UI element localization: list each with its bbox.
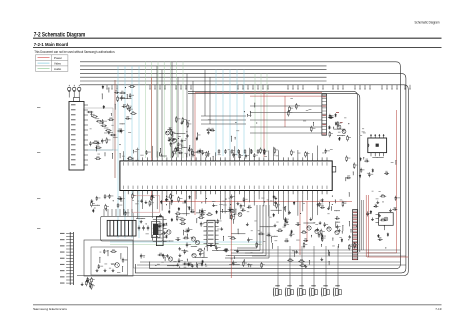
label RCtr7 [171,136,173,139]
pin label bottom 42 [321,186,324,189]
IC U301 bottom pin 28 [253,191,255,195]
wire [330,206,333,210]
label RF25 [151,201,154,204]
resistor RCtr7 [169,139,175,141]
audio wire (green) vertical 2 [266,74,268,152]
pin label bottom 21 [219,186,222,189]
label RP1 [291,107,294,110]
wire audio out 5 [252,255,406,257]
resistor RP7 [288,110,290,116]
diode DA22 [103,105,105,109]
label CCtr34 [211,127,213,130]
resistor RT1 [87,277,89,283]
resistor RG49 [176,215,178,221]
IC U301 bottom pin 43 [326,191,328,195]
pin label bottom 41 [316,186,319,189]
IC U602 label 3 [208,230,214,231]
IC U301 top pin 2 [127,157,129,161]
label CK8 [397,197,400,200]
wire to IC pin [122,151,124,157]
node junction [225,199,226,200]
node junction [206,198,207,199]
label RE19 [307,152,310,155]
label CJ11 [363,169,365,172]
ground [180,121,183,124]
connector CN801 cell 4 [353,220,358,222]
IC U301 top pin 33 [278,157,280,161]
wire [119,153,122,158]
bus line top 3 [80,69,327,71]
label RP4 [312,127,315,130]
ground [274,201,277,204]
label RE15 [174,153,177,156]
capacitor CG81 [188,263,193,265]
diode DG109 [163,223,165,227]
label CI6 [330,114,332,117]
diode DH59 [273,213,275,217]
power wire red vertical center [230,200,232,278]
node junction [356,226,357,227]
IC U301 bottom pin 37 [297,191,299,195]
wire [328,252,331,257]
pin label CN701-1 [60,233,65,234]
connector CN701 pin 13 [66,269,73,272]
diode DF50 [293,201,295,205]
power wire red bottom right [367,256,408,258]
label P9 [290,97,293,100]
wire [95,145,98,151]
label CH39 [336,215,338,218]
resistor RH46 [320,229,322,235]
label CH20 [297,221,300,224]
resistor RV5 [95,158,101,160]
power wire red vertical 3 [263,93,265,157]
wire to IC pin [311,153,313,157]
wire from IC pin [311,194,313,219]
IC U301 bottom pin 27 [248,191,250,195]
capacitor CL10 [117,198,122,200]
IC U301 bottom pin 18 [205,191,207,195]
resistor RCtr5 [196,151,202,153]
label F2 [215,204,217,207]
wire [270,237,273,243]
IC U301 top pin 31 [268,157,270,161]
label CE34 [235,153,237,156]
resistor RH55 [301,232,307,234]
wire to IC pin [234,146,236,157]
label E30 [206,154,209,157]
label F28 [219,203,223,206]
capacitor CL9 [124,211,126,216]
capacitor CH39 [335,217,340,219]
wire stub from bus [405,85,406,90]
resistor RG25 [231,214,233,220]
label RH50 [278,228,281,231]
wire stub from bus [117,85,118,90]
label RCtr30 [177,118,180,121]
transistor Q amp [307,226,311,230]
video wire (cyan) horizontal [88,149,118,151]
connector CN801 body [353,210,358,260]
audio wire (green) vertical 2 [254,74,256,152]
label CL16 [122,197,124,200]
label CG78 [242,207,244,210]
label V1 [97,153,100,156]
pin label bottom 7 [151,186,154,189]
wire from IC pin [244,194,246,207]
IC U301 top pin 41 [316,157,318,161]
connector CN801 cell 12 [353,247,358,249]
IC U401 bottom pin 3 [378,153,380,157]
resistor RO3 [119,92,125,94]
IC U602 label 1 [208,222,214,223]
wire loop C inner [77,85,408,276]
label H29 [313,221,315,224]
wire black right pair [361,200,363,250]
connector CN601 body [322,94,327,135]
wire stub from bus [303,85,304,90]
pin label top 33 [277,162,280,165]
wire to IC pin [181,152,183,158]
label F56 [274,204,276,207]
label E20 [297,152,300,155]
label RO13 [119,97,121,100]
resistor RJ1 [353,163,355,169]
resistor RG17 [206,214,212,216]
label CL1 [106,195,109,198]
IC U301 bottom pin 33 [278,191,280,195]
IC U301 top pin 8 [156,157,158,161]
capacitor CCtr16 [170,142,172,147]
IC U301 top pin 15 [190,157,192,161]
connector CN701 pin 7 [66,251,73,254]
pin label 9 [71,144,76,145]
label M8 [117,271,120,274]
pin label bottom 38 [301,186,304,189]
label G8 [187,206,190,209]
power wire red vertical r2 [306,202,308,243]
connector CN601 cell 4 [322,104,327,106]
label RE10 [292,151,295,154]
AV module pin 4 [115,209,117,216]
transistor Q misc [238,213,242,217]
label S7 [198,262,202,265]
IC U301 top pin 18 [205,157,207,161]
label RG20 [260,231,263,234]
node junction [143,256,144,257]
ground [212,204,215,207]
capacitor CG71 [140,254,142,259]
jack J3 [78,85,81,98]
connector CN801 cell 9 [353,237,358,239]
resistor RH50 [277,230,283,232]
label CE32 [256,154,258,157]
pin label top 30 [263,162,266,165]
label RV5 [96,156,99,159]
label RO3 [121,90,123,93]
pin label 1 [71,104,76,105]
connector CN801 cell 1 [353,210,358,212]
IC U301 top pin 29 [258,157,260,161]
IC U301 top pin 5 [142,157,144,161]
resistor RL4 [105,204,107,210]
wire [182,146,188,149]
audio wire (green) vertical [170,62,172,158]
label RF16 [134,194,136,197]
audio wire (green) vertical [145,62,147,158]
wire [293,251,296,257]
svg-text:Samsung Electronics: Samsung Electronics [33,307,68,311]
label RA15 [108,139,111,142]
capacitor CL1 [104,194,106,199]
label CG96 [229,206,232,209]
label CG85 [204,209,206,212]
pin label bottom 24 [234,186,237,189]
wire from IC pin [302,194,304,211]
wire from IC pin [234,194,236,219]
pin label 6 [71,129,76,130]
capacitor CA26 [128,107,130,112]
label CG72 [248,204,251,207]
label CA1 [123,103,126,106]
wire [220,210,232,213]
pin label bottom 3 [132,186,135,189]
capacitor CL6 [108,194,110,199]
label J10 [391,161,394,164]
IC U602 label 5 [208,239,214,240]
audio wire (green) vertical [176,62,178,158]
transistor Q [191,237,195,241]
resistor RG56 [223,249,229,251]
IC U301 top pin 38 [302,157,304,161]
connector CN801 cell 8 [353,233,358,235]
wire [156,224,168,227]
pin label bottom 33 [277,186,280,189]
label F3 [270,200,273,203]
diode DG90 [166,235,168,239]
label RE24 [194,151,197,154]
resistor RE15 [172,151,174,157]
pin label top 3 [132,162,135,165]
diode DCtr6 [196,137,198,141]
label V6 [122,155,125,158]
wire [196,212,205,215]
node junction [332,204,333,205]
connector CN701 pin 6 [66,248,73,251]
pin label bottom 35 [287,186,290,189]
label F58 [166,200,169,203]
IC U602 right pin 3 [215,230,219,232]
IC U301 bottom pin 20 [214,191,216,195]
resistor RG29 [183,237,189,239]
pin label bottom 31 [267,186,270,189]
label CM10 [100,265,103,268]
IC U602 right pin 2 [215,226,219,228]
label CG102 [190,228,192,231]
capacitor CG72 [247,206,252,208]
legend Audio line [38,68,50,70]
wire [207,151,210,157]
wire pair lower [188,93,360,252]
pin label bottom 14 [185,186,188,189]
diode DI1 [338,137,340,141]
label RI8 [349,136,352,139]
AV module pin 2 [107,209,109,216]
node junction [300,213,301,214]
IC U301 top pin 32 [273,157,275,161]
label CG2 [210,242,213,245]
connector CN701 pin 3 [66,238,73,241]
pin label top 14 [185,162,188,165]
pin label 8 [71,139,76,140]
label RK6 [381,217,384,220]
diode DF6 [189,195,191,199]
diode DG19 [178,207,180,211]
label RCtr33 [189,123,192,126]
capacitor CCtr34 [210,129,215,131]
label A8 [128,131,131,134]
node junction [230,204,231,205]
wire stub from bus [268,85,269,90]
node junction [155,265,156,266]
label RF48 [278,204,281,207]
label F33 [150,203,153,206]
label F35 [182,202,185,205]
capacitor CG28 [217,219,219,224]
AV connector block [107,220,136,236]
label CI7 [329,114,331,117]
wire stub from bus [288,85,289,90]
ground [201,210,204,213]
title underline [33,37,442,39]
label RF61 [180,197,183,200]
wire stub from bus [112,85,113,90]
capacitor CA11 [102,119,104,124]
resistor RD6 [110,134,116,136]
wire to IC pin [297,150,299,157]
wire stub from bus [253,85,254,90]
wire [233,256,236,259]
wire [93,204,100,207]
wire from IC pin [161,194,163,210]
transistor Q amp [327,227,331,231]
wire to IC pin [239,150,241,157]
label CCtr13 [202,149,204,152]
label G42 [247,210,249,213]
resistor RG99 [175,213,181,215]
wire [231,232,245,235]
wire from IC pin [151,194,153,218]
resistor RE11 [175,147,177,153]
IC U301 bottom pin 16 [195,191,197,195]
wire from IC pin [273,194,275,206]
wire group outline bottom [134,267,264,269]
diode DF19 [160,200,162,204]
bus line top 6 [80,80,327,82]
AV module pin 3 [111,209,113,216]
wire [101,93,104,99]
wire loop B middle [80,74,406,273]
svg-text:7-2 Schematic Diagram: 7-2 Schematic Diagram [34,32,86,39]
pin label top 41 [316,162,319,165]
diode DK28 [377,234,379,238]
pin label 12 [71,159,76,160]
wire from IC pin [229,194,231,219]
pin label bottom 17 [200,186,203,189]
IC U601 right pin 4 [163,232,167,234]
ground [220,227,223,230]
label K30 [372,190,374,193]
wire [107,250,110,256]
connector CN201 pin 4 [84,119,88,122]
resistor RE29 [239,153,241,159]
label CL7 [119,204,122,207]
ground [140,220,143,223]
connector CN801 cell 15 [353,257,358,259]
wire [394,160,397,165]
wire [271,235,278,238]
diode DJ9 [360,157,362,161]
IC U602 left pin 4 [204,234,208,236]
wire feed to capacitor [313,246,315,277]
resistor RG1 [179,219,185,221]
label CJ3 [385,170,387,173]
connector CN801 cell 7 [353,230,358,232]
pin label bottom 12 [175,186,178,189]
video wire (cyan) vertical [131,66,133,238]
label E16 [322,152,324,155]
IC U401 body [368,138,387,153]
capacitor CH36 [320,206,325,208]
label CG31 [186,228,189,231]
resistor RG51 [256,242,258,248]
label RK16 [356,243,359,246]
wire stub from bus [160,85,161,90]
wire loop A outer [80,62,400,269]
label RCtr26 [208,127,210,130]
power wire red horizontal center [160,201,352,203]
node junction [386,174,387,175]
diode DI13 [328,126,330,130]
wire [301,277,303,288]
wire [95,118,100,120]
IC U301 top pin 42 [321,157,323,161]
ground [237,202,240,205]
label CCtr36 [180,143,183,146]
capacitor CG117 [200,213,205,215]
capacitor CA2 [89,141,91,146]
resistor RK10 [348,244,350,250]
label CH36 [321,204,324,207]
node junction [201,202,202,203]
connector CN201 pin 8 [84,139,88,142]
label E23 [185,152,188,155]
wire [171,132,174,137]
node junction [113,200,114,201]
label CG75 [218,246,221,249]
ground [309,218,312,221]
capacitor CK21 [392,208,397,210]
label Ctr35 [208,118,211,121]
label F32 [166,196,170,199]
capacitor CK2 [367,211,369,216]
wire audio out 4 [245,252,400,254]
IC U401 top pin 4 [383,134,384,138]
wire [212,156,215,161]
ground [274,196,277,199]
wire [98,257,101,263]
label CL10 [118,195,120,198]
